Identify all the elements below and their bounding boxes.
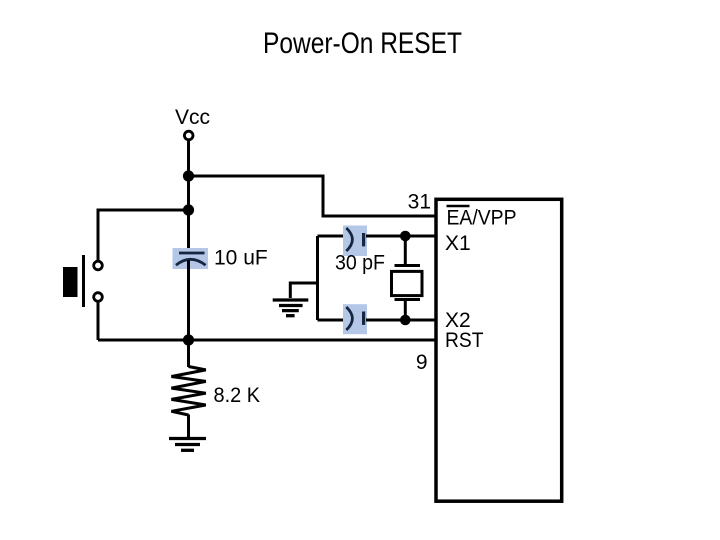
wire capacitor C1 bottom to RST junction	[187, 260, 190, 340]
svg-text:8.2 K: 8.2 K	[214, 384, 261, 407]
svg-text:X1: X1	[445, 232, 471, 255]
push-button S1 actuator bar	[82, 255, 85, 307]
wire left branch to push-button top	[98, 210, 189, 260]
svg-text:30 pF: 30 pF	[335, 252, 385, 275]
push-button S1 top contact	[94, 261, 103, 270]
ground GND2 at capacitor mid-rail	[273, 300, 309, 316]
push-button S1 bottom contact	[94, 293, 103, 302]
capacitor C2 curved plate	[346, 228, 352, 251]
ground GND1 below resistor	[169, 439, 206, 451]
svg-text:Vcc: Vcc	[175, 106, 210, 129]
crystal Y1 bottom plate	[395, 298, 421, 301]
capacitor C2 flat plate	[362, 233, 365, 246]
wire capacitor C3 right to X2 pin	[366, 319, 435, 322]
crystal Y1 top plate	[395, 264, 421, 267]
wire junction to resistor R1 top	[187, 340, 190, 367]
capacitor C1 10uF highlight box	[173, 248, 209, 269]
capacitor C3 flat plate	[362, 312, 365, 325]
wire Vcc stub down from terminal	[187, 140, 190, 176]
capacitor C2 30pF highlight box	[343, 226, 367, 257]
push-button S1 plunger block	[63, 267, 78, 297]
node junction X2/crystal	[400, 315, 411, 326]
node junction RST/capacitor/resistor	[183, 334, 194, 345]
wire into capacitor C3 left	[318, 319, 345, 322]
resistor R1 zigzag	[171, 367, 205, 416]
svg-text:RST: RST	[445, 329, 484, 352]
svg-text:31: 31	[408, 191, 431, 214]
node junction Vcc/top-rail	[183, 170, 194, 181]
wire into capacitor C2 left	[318, 235, 345, 238]
overline over EA	[447, 205, 470, 207]
crystal Y1 body	[392, 271, 423, 295]
svg-text:Power-On RESET: Power-On RESET	[263, 27, 462, 60]
node junction Vcc/left-branch	[183, 204, 194, 215]
capacitor C1 10uF top plate	[179, 252, 205, 255]
crystal Y1 bottom stem	[404, 300, 407, 321]
node junction X1/crystal	[400, 231, 411, 242]
svg-text:9: 9	[416, 351, 428, 374]
wire top rail to EA/VPP: horizontal, corner down, into chip pin 31	[189, 176, 435, 216]
capacitor C1 10uF curved plate	[176, 259, 206, 265]
wire capacitor C2 right to X1 pin	[366, 235, 435, 238]
svg-text:EA/VPP: EA/VPP	[447, 207, 517, 230]
crystal Y1 top stem	[404, 236, 407, 266]
wire left vertical linking the two 30pF capacitors	[316, 236, 319, 320]
wire ground tap from capacitor mid-rail	[290, 283, 317, 298]
svg-text:10 uF: 10 uF	[214, 247, 268, 270]
wire RST net: long horizontal into chip pin 9	[98, 339, 435, 342]
Vcc terminal circle	[184, 131, 193, 140]
wire resistor R1 bottom to ground	[187, 415, 190, 439]
capacitor C3 30pF highlight box	[343, 304, 367, 334]
wire Vcc line down to capacitor C1 top plate	[187, 176, 190, 252]
capacitor C3 curved plate	[346, 307, 352, 330]
wire push-button bottom down to RST line	[97, 303, 100, 341]
IC U1 8051 body	[436, 199, 562, 501]
